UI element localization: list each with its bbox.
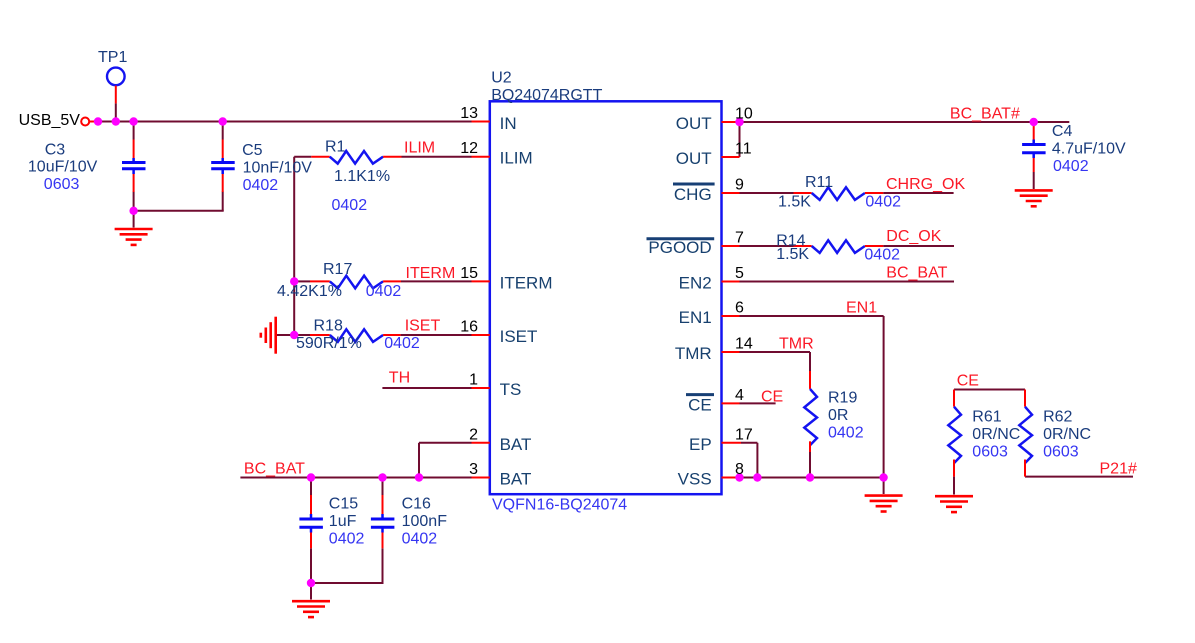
junction at BAT2 branch — [415, 473, 423, 481]
svg-text:DC_OK: DC_OK — [886, 228, 941, 245]
ground at C15 — [292, 601, 330, 617]
svg-text:590R/1%: 590R/1% — [296, 335, 362, 352]
pin 1 TS stub — [472, 387, 490, 389]
svg-text:11: 11 — [735, 141, 752, 158]
svg-text:C16: C16 — [402, 495, 431, 512]
svg-text:ITERM: ITERM — [500, 273, 553, 292]
svg-text:R62: R62 — [1043, 409, 1072, 426]
svg-text:TS: TS — [500, 380, 522, 399]
svg-text:0402: 0402 — [402, 530, 438, 547]
wire EP horizontal — [741, 442, 757, 444]
pin 15 ITERM stub — [472, 280, 490, 282]
wire TMR row — [740, 351, 811, 353]
svg-text:CE: CE — [761, 389, 783, 406]
junction at OUT pins — [735, 118, 743, 126]
resistor R19 vertical — [804, 371, 817, 452]
wire R19 bottom dark — [809, 452, 811, 478]
svg-text:12: 12 — [460, 140, 478, 157]
wire ILIM row left — [294, 156, 311, 158]
junction at R19/VSS — [806, 473, 814, 481]
svg-text:EP: EP — [689, 435, 712, 454]
wire TH to TS pin — [382, 387, 471, 389]
svg-text:1uF: 1uF — [329, 513, 357, 530]
IC U2 box — [490, 101, 722, 494]
ground at C4 — [1015, 190, 1053, 206]
wire C16 upper dark — [382, 478, 384, 496]
wire CHG row left — [740, 192, 794, 194]
svg-text:R61: R61 — [972, 409, 1001, 426]
svg-text:100nF: 100nF — [402, 513, 448, 530]
svg-text:CE: CE — [957, 373, 979, 390]
svg-text:0402: 0402 — [243, 177, 279, 194]
wire OUT pin11 vertical — [739, 122, 741, 157]
wire ISET row right — [401, 334, 472, 336]
pin 12 ILIM stub — [472, 156, 490, 158]
wire BAT pin2 branch horizontal — [419, 442, 472, 444]
pin 10 OUT stub — [722, 121, 740, 123]
test point TP1 — [107, 68, 125, 86]
svg-text:0402: 0402 — [329, 530, 365, 547]
capacitor C16 — [371, 495, 395, 548]
resistor R11 — [794, 187, 884, 200]
wire C16 lower dark — [382, 548, 384, 583]
svg-text:BC_BAT: BC_BAT — [886, 265, 947, 282]
wire EN1 row — [740, 315, 884, 317]
svg-text:TMR: TMR — [675, 344, 712, 363]
svg-text:15: 15 — [460, 265, 478, 282]
svg-text:ISET: ISET — [500, 327, 538, 346]
junction at TP1 — [112, 117, 120, 125]
svg-text:8: 8 — [735, 461, 744, 478]
wire P21# row — [1025, 476, 1133, 478]
svg-text:16: 16 — [460, 319, 478, 336]
pin 13 IN stub — [472, 121, 490, 123]
svg-text:ILIM: ILIM — [500, 149, 533, 168]
capacitor C15 — [299, 495, 323, 548]
pin 16 ISET stub — [472, 334, 490, 336]
svg-text:BAT: BAT — [500, 435, 532, 454]
svg-text:1.1K1%: 1.1K1% — [334, 168, 390, 185]
resistor R17 — [310, 276, 401, 289]
wire EN1 ground lead — [883, 478, 885, 495]
svg-text:14: 14 — [735, 336, 753, 353]
svg-text:P21#: P21# — [1100, 461, 1137, 478]
ground at R61 — [935, 496, 973, 512]
svg-text:ISET: ISET — [405, 318, 441, 335]
svg-text:17: 17 — [735, 426, 753, 443]
svg-text:6: 6 — [735, 300, 744, 317]
wire C5 lower lead — [222, 192, 224, 211]
wire TMR vertical to R19 — [809, 352, 811, 371]
svg-text:R18: R18 — [314, 318, 343, 335]
svg-text:USB_5V: USB_5V — [19, 112, 81, 129]
ground at C3 — [115, 229, 153, 245]
svg-text:CHRG_OK: CHRG_OK — [886, 176, 965, 193]
wire PGOOD row left — [740, 245, 794, 247]
wire C15 upper dark — [310, 478, 312, 496]
svg-text:R19: R19 — [828, 390, 857, 407]
svg-text:0402: 0402 — [828, 425, 864, 442]
svg-text:C4: C4 — [1052, 123, 1073, 140]
svg-text:5: 5 — [735, 265, 744, 282]
wire ILIM-ITERM-ISET vertical bus — [293, 157, 295, 335]
svg-text:0402: 0402 — [384, 335, 420, 352]
svg-text:1.5K: 1.5K — [776, 246, 809, 263]
svg-text:0402: 0402 — [332, 197, 368, 214]
svg-text:10nF/10V: 10nF/10V — [243, 159, 313, 176]
svg-text:BQ24074RGTT: BQ24074RGTT — [491, 87, 602, 104]
svg-text:VSS: VSS — [678, 470, 712, 489]
svg-text:0R/NC: 0R/NC — [972, 426, 1020, 443]
svg-text:2: 2 — [469, 426, 478, 443]
svg-text:0603: 0603 — [44, 176, 80, 193]
wire C3 ground lead — [133, 211, 135, 228]
wire C4 ground lead — [1033, 172, 1035, 189]
svg-text:4: 4 — [735, 387, 744, 404]
wire C3 upper lead — [133, 122, 135, 140]
svg-text:13: 13 — [460, 105, 478, 122]
wire EN1 vertical — [883, 316, 885, 478]
svg-text:EN1: EN1 — [679, 308, 712, 327]
junction at C16 top — [378, 473, 386, 481]
svg-text:C15: C15 — [329, 495, 358, 512]
svg-text:BC_BAT: BC_BAT — [244, 461, 305, 478]
resistor R14 — [794, 240, 884, 253]
wire CE pin stub row — [740, 402, 776, 404]
wire EN2 BC_BAT row — [740, 281, 955, 283]
svg-text:0402: 0402 — [865, 194, 901, 211]
junction at USB_5V port — [94, 117, 102, 125]
wire BC_BAT row — [240, 477, 471, 479]
svg-text:1: 1 — [469, 372, 478, 389]
wire BAT pin2 branch vertical — [418, 443, 420, 478]
svg-text:10: 10 — [735, 106, 753, 123]
wire C3 lower lead — [133, 192, 135, 211]
svg-text:PGOOD: PGOOD — [648, 238, 711, 257]
svg-text:EN1: EN1 — [846, 300, 877, 317]
resistor R62 vertical — [1019, 390, 1032, 477]
svg-text:EN2: EN2 — [679, 274, 712, 293]
wire OUT to BC_BAT# — [740, 121, 1070, 123]
junction at VSS stub — [735, 473, 743, 481]
pin 9 CHG stub — [722, 192, 740, 194]
svg-text:R1: R1 — [325, 139, 346, 156]
pin 17 EP stub — [722, 442, 742, 444]
junction at ITERM row — [290, 277, 298, 285]
svg-text:7: 7 — [735, 230, 744, 247]
svg-text:ITERM: ITERM — [406, 265, 456, 282]
wire C15 ground lead — [310, 583, 312, 600]
ground at EN1/VSS — [865, 496, 903, 512]
svg-text:OUT: OUT — [676, 114, 712, 133]
svg-text:0402: 0402 — [366, 283, 402, 300]
junction at C3 top — [129, 117, 137, 125]
svg-text:0R/NC: 0R/NC — [1043, 426, 1091, 443]
svg-text:0402: 0402 — [1053, 158, 1089, 175]
svg-text:OUT: OUT — [676, 149, 712, 168]
svg-text:0603: 0603 — [972, 444, 1008, 461]
svg-text:BC_BAT#: BC_BAT# — [950, 106, 1020, 123]
wire C15 lower dark — [310, 548, 312, 583]
pin 4 CE stub — [722, 402, 740, 404]
svg-text:IN: IN — [500, 114, 517, 133]
svg-text:TP1: TP1 — [98, 49, 127, 66]
svg-text:C5: C5 — [242, 142, 263, 159]
svg-text:0402: 0402 — [864, 247, 900, 264]
svg-text:TH: TH — [389, 370, 410, 387]
junction at C15 bottom — [307, 579, 315, 587]
svg-text:1.5K: 1.5K — [778, 194, 811, 211]
wire VSS row — [740, 477, 884, 479]
wire EP vertical — [756, 443, 758, 478]
svg-text:U2: U2 — [491, 70, 512, 87]
ground rotated at R18 (earth left) — [261, 317, 294, 354]
resistor R61 vertical — [948, 390, 961, 477]
pin 14 TMR stub — [722, 351, 740, 353]
wire ILIM row right — [402, 156, 472, 158]
wire ITERM row right — [401, 280, 472, 282]
svg-text:R11: R11 — [805, 174, 833, 191]
junction at C15 top — [307, 473, 315, 481]
svg-text:BAT: BAT — [500, 470, 532, 489]
svg-text:VQFN16-BQ24074: VQFN16-BQ24074 — [492, 496, 627, 513]
svg-text:4.42K1%: 4.42K1% — [277, 283, 342, 300]
wire C3-C5 bottom link — [134, 210, 224, 212]
pin 2 BAT stub — [472, 442, 490, 444]
wire CE net horizontal — [954, 389, 1025, 391]
pin 8 VSS stub — [722, 477, 740, 479]
svg-text:0R: 0R — [828, 407, 848, 424]
resistor R1 — [311, 151, 401, 164]
junction at C5 top — [219, 117, 227, 125]
pin 6 EN1 stub — [722, 315, 740, 317]
wire CHG row right — [883, 192, 953, 194]
wire ITERM row left — [294, 280, 310, 282]
wire USB_5V main horizontal — [98, 121, 472, 123]
resistor R18 — [310, 329, 401, 342]
wire R61 ground dark — [953, 477, 955, 495]
pin 3 BAT stub — [472, 477, 490, 479]
wire C5 upper lead — [222, 122, 224, 140]
port USB_5V open pin circle — [81, 118, 89, 126]
svg-text:3: 3 — [469, 461, 478, 478]
wire ISET row left — [294, 334, 310, 336]
capacitor C5 — [211, 140, 235, 193]
junction at ISET row — [290, 331, 298, 339]
wire TP1 lead lower — [115, 103, 117, 121]
pin 7 PGOOD stub — [722, 245, 740, 247]
wire C15-C16 bottom link — [311, 582, 384, 584]
svg-text:CE: CE — [688, 395, 712, 414]
capacitor C3 — [122, 140, 146, 193]
wire PGOOD row right — [883, 245, 954, 247]
pin 5 EN2 stub — [722, 281, 740, 283]
junction at C3 bottom — [129, 207, 137, 215]
capacitor C4 — [1022, 124, 1046, 172]
svg-text:R17: R17 — [323, 261, 352, 278]
svg-text:C3: C3 — [45, 142, 66, 159]
svg-text:ILIM: ILIM — [404, 140, 435, 157]
svg-text:0603: 0603 — [1043, 444, 1079, 461]
junction at EP/VSS — [753, 473, 761, 481]
svg-text:9: 9 — [735, 177, 744, 194]
svg-text:CHG: CHG — [674, 185, 712, 204]
pin 11 OUT stub — [722, 156, 740, 158]
svg-text:10uF/10V: 10uF/10V — [28, 158, 98, 175]
junction at EN1/VSS — [879, 473, 887, 481]
junction at C4 top — [1030, 118, 1038, 126]
svg-text:TMR: TMR — [779, 336, 814, 353]
svg-text:4.7uF/10V: 4.7uF/10V — [1052, 141, 1126, 158]
